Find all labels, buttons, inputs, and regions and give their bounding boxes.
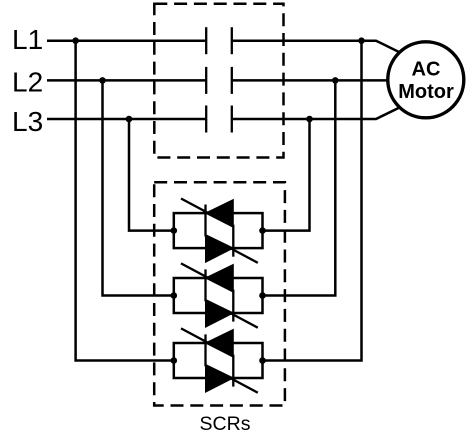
contact K2 (L2 phase) bbox=[206, 67, 232, 94]
junction SCR1 left terminal bbox=[171, 227, 178, 234]
svg-text:L3: L3 bbox=[12, 106, 43, 137]
wire L3 right segment to motor bbox=[232, 108, 400, 120]
junction L1 left tap bbox=[72, 37, 79, 44]
SCR1a gate bbox=[181, 199, 220, 220]
wire L1 left segment bbox=[47, 39, 206, 42]
contact K1 (L1 phase) bbox=[206, 27, 232, 54]
junction L1 right tap bbox=[358, 37, 365, 44]
SCR1b cathode bar bbox=[232, 225, 234, 257]
junction L2 left tap bbox=[99, 77, 106, 84]
SCR pair module 1 (L3 phase) bbox=[171, 199, 266, 263]
SCR1b gate bbox=[219, 242, 258, 263]
SCR pair module 3 (L1 phase) bbox=[171, 328, 266, 392]
SCR2a gate bbox=[181, 263, 220, 284]
SCR3b gate bbox=[219, 372, 258, 393]
junction SCR1 right terminal bbox=[259, 227, 266, 234]
SCR2b gate bbox=[219, 307, 258, 328]
wire L1 right drop to SCR3 bbox=[263, 41, 362, 361]
svg-text:L2: L2 bbox=[12, 67, 43, 98]
wire L1 left drop to SCR3 bbox=[76, 41, 174, 361]
thyristor SCR3a (points left) bbox=[206, 329, 234, 357]
SCR pair module 2 (L2 phase) bbox=[171, 263, 266, 327]
junction SCR2 right terminal bbox=[259, 292, 266, 299]
junction L2 right tap bbox=[332, 77, 339, 84]
wire L2 left drop to SCR2 bbox=[103, 80, 174, 295]
thyristor SCR2a (points left) bbox=[206, 264, 234, 292]
module frame wire rectangle bbox=[174, 343, 263, 378]
svg-text:SCRs: SCRs bbox=[200, 413, 251, 435]
svg-text:L1: L1 bbox=[12, 24, 43, 55]
wire L3 right drop to SCR1 bbox=[263, 119, 310, 231]
thyristor SCR2b (points right) bbox=[206, 299, 234, 327]
SCR1a cathode bar bbox=[204, 205, 206, 237]
SCR bank dashed enclosure bbox=[154, 182, 285, 405]
module frame wire rectangle bbox=[174, 278, 263, 313]
wire L2 left segment bbox=[47, 79, 206, 82]
bypass contactor dashed enclosure bbox=[154, 4, 283, 158]
wire L2 right drop to SCR2 bbox=[263, 80, 336, 295]
SCR3a gate bbox=[181, 328, 220, 349]
SCR2b cathode bar bbox=[232, 290, 234, 322]
module frame wire rectangle bbox=[174, 213, 263, 248]
svg-text:AC: AC bbox=[412, 59, 441, 81]
SCR3a cathode bar bbox=[204, 334, 206, 366]
svg-text:Motor: Motor bbox=[398, 81, 454, 103]
junction SCR3 right terminal bbox=[259, 357, 266, 364]
SCR3b cathode bar bbox=[232, 355, 234, 387]
contact K3 (L3 phase) bbox=[206, 106, 232, 133]
thyristor SCR1b (points right) bbox=[206, 235, 234, 263]
wire L2 right segment to motor bbox=[232, 79, 390, 82]
thyristor SCR1a (points left) bbox=[206, 200, 234, 228]
junction L3 left tap bbox=[126, 116, 133, 123]
SCR2a cathode bar bbox=[204, 269, 206, 301]
thyristor SCR3b (points right) bbox=[206, 364, 234, 392]
junction SCR2 left terminal bbox=[171, 292, 178, 299]
wire L3 left drop to SCR1 bbox=[129, 119, 174, 231]
junction SCR3 left terminal bbox=[171, 357, 178, 364]
wire L1 right segment to motor bbox=[232, 41, 400, 53]
AC motor M1 bbox=[388, 42, 464, 118]
wire L3 left segment bbox=[47, 118, 206, 121]
junction L3 right tap bbox=[306, 116, 313, 123]
